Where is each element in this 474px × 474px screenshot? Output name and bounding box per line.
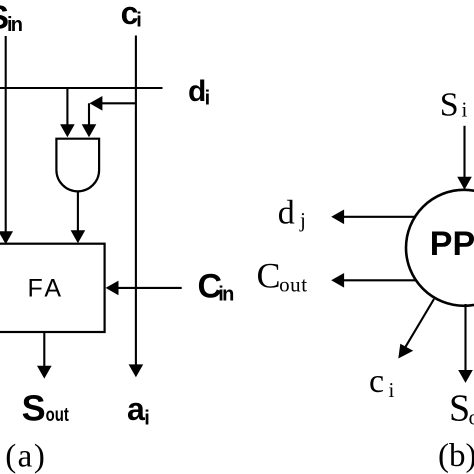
- wire AND output: [77, 191, 79, 233]
- svg-text:a: a: [127, 391, 145, 427]
- arrowhead into FA top (S_in): [0, 231, 13, 244]
- svg-text:S: S: [449, 388, 470, 430]
- svg-text:out: out: [46, 405, 70, 426]
- arrowhead S_i into PP: [457, 177, 472, 190]
- label C_in: [198, 268, 235, 306]
- arrowhead AND input 1: [60, 124, 75, 137]
- svg-text:S: S: [440, 86, 459, 123]
- svg-text:d: d: [188, 75, 206, 108]
- wire S_i vertical: [463, 126, 465, 178]
- arrowhead c_i (b): [398, 344, 413, 359]
- svg-text:S: S: [22, 387, 46, 428]
- FA box: [0, 244, 105, 332]
- svg-text:(a): (a): [5, 439, 46, 474]
- arrowhead a_i (bottom of c_i line): [129, 364, 144, 377]
- svg-text:out: out: [279, 272, 307, 296]
- arrowhead C_out: [331, 273, 344, 288]
- label a_i: [127, 391, 150, 429]
- label c_i: [121, 0, 142, 31]
- label c_i (b): [369, 363, 395, 402]
- node PP circle: [406, 190, 474, 306]
- label S_out: [22, 387, 70, 428]
- svg-text:c: c: [369, 363, 384, 400]
- wire S_o vertical (b): [464, 304, 466, 371]
- svg-text:j: j: [299, 208, 306, 232]
- svg-text:in: in: [7, 14, 23, 36]
- svg-text:i: i: [136, 9, 142, 31]
- arrowhead S_o (b): [458, 370, 473, 383]
- label S_o (b): [449, 388, 474, 430]
- wire c_i / a_i vertical: [135, 36, 137, 366]
- arrowhead d_j: [331, 210, 344, 225]
- svg-text:in: in: [218, 284, 234, 306]
- arrowhead left on AND input 2: [90, 96, 103, 111]
- svg-text:i: i: [389, 378, 395, 402]
- AND gate U1: [56, 139, 99, 192]
- wire C_in: [117, 287, 182, 289]
- svg-text:d: d: [278, 194, 295, 231]
- svg-text:C: C: [257, 256, 281, 296]
- svg-text:i: i: [205, 88, 211, 110]
- svg-text:i: i: [462, 98, 468, 122]
- svg-text:i: i: [144, 407, 150, 429]
- label S_in: [0, 0, 23, 36]
- arrowhead C_in into FA: [106, 281, 119, 296]
- wire d_i horizontal: [0, 87, 163, 89]
- wire d_j: [343, 216, 416, 218]
- label C_out: [257, 256, 308, 297]
- wire c_i diagonal (b): [405, 299, 434, 348]
- wire AND input 2 vertical: [88, 103, 90, 126]
- arrowhead AND input 2 into gate: [82, 124, 97, 137]
- label S_i: [440, 86, 468, 123]
- svg-text:FA: FA: [28, 274, 65, 302]
- label d_i: [188, 75, 210, 110]
- label d_j: [278, 194, 306, 232]
- svg-text:(b): (b): [438, 438, 474, 474]
- arrowhead AND output into FA: [71, 230, 86, 243]
- svg-text:o: o: [469, 405, 474, 430]
- arrowhead S_out: [37, 366, 52, 379]
- wire AND input 2 horizontal (from c_i line): [99, 102, 136, 104]
- wire S_in vertical: [5, 36, 7, 233]
- wire AND input 1 (from d_i): [66, 88, 68, 126]
- svg-text:PP: PP: [430, 225, 474, 263]
- wire C_out: [343, 279, 417, 281]
- wire S_out: [43, 333, 45, 368]
